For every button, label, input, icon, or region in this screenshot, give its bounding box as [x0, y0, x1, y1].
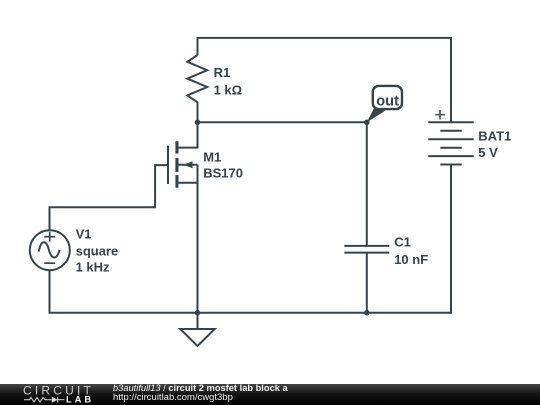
svg-text:1 kHz: 1 kHz	[76, 260, 110, 275]
svg-text:C1: C1	[394, 235, 411, 250]
svg-text:BAT1: BAT1	[478, 129, 511, 144]
svg-text:BS170: BS170	[203, 166, 243, 181]
svg-text:LAB: LAB	[66, 394, 94, 404]
svg-text:out: out	[376, 93, 399, 109]
svg-text:1 kΩ: 1 kΩ	[214, 82, 243, 97]
svg-text:R1: R1	[214, 65, 231, 80]
svg-text:V1: V1	[76, 227, 92, 242]
svg-text:10 nF: 10 nF	[394, 252, 428, 267]
svg-text:square: square	[76, 244, 119, 259]
svg-text:M1: M1	[203, 149, 221, 164]
svg-text:5 V: 5 V	[478, 145, 498, 160]
